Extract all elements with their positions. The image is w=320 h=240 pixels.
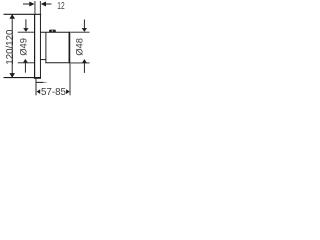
svg-text:57-85: 57-85 [41, 87, 66, 96]
knob front face (thick) [68, 32, 70, 63]
wire: bottom extension line (120 dim) [4, 77, 35, 79]
knob ring bottom edge (back part) [41, 59, 46, 61]
stub line below plate [36, 81, 43, 83]
wire: Ø48 bottom extension [70, 62, 89, 64]
knob bottom edge (front part) [45, 62, 70, 64]
arrow right (12 dim, left side) with tail [23, 3, 30, 5]
button on top of knob [49, 30, 56, 33]
wire: Ø49 top extension [18, 31, 35, 33]
background [0, 0, 96, 96]
button center slit [52, 30, 53, 31]
arrow down (120 bottom) [9, 73, 15, 78]
wire: 12-dim right extension (plate right) [39, 1, 41, 14]
plate left edge [34, 14, 36, 79]
wire: 12-dim left extension (plate left) [34, 1, 36, 14]
plate bottom edge (thick) [34, 77, 41, 79]
knob top edge [41, 31, 70, 33]
wire: top extension line + plate top edge [4, 13, 42, 15]
dim line Ø49 lower [24, 63, 26, 73]
dim line Ø49 upper [25, 19, 27, 28]
arrow up (Ø48 bottom edge) [82, 59, 87, 63]
dim line Ø48 upper [83, 20, 85, 29]
wire: Ø48 top extension [70, 31, 89, 33]
knob step vertical [45, 33, 47, 63]
wire: Ø49 bottom extension [18, 62, 35, 64]
arrow left (12 dim, right side) with tail [41, 2, 46, 7]
svg-text:12: 12 [57, 1, 64, 12]
arrow left (57-85) [37, 89, 41, 94]
arrow up (Ø49 bottom edge) [23, 59, 28, 63]
arrow right (57-85) [66, 89, 70, 94]
svg-text:Ø49: Ø49 [18, 38, 28, 56]
dim line 120/120 [11, 15, 13, 78]
dim line Ø48 lower [83, 63, 85, 73]
svg-text:120/120: 120/120 [5, 29, 16, 65]
wire: 57-85 left extension [35, 79, 37, 95]
svg-text:Ø48: Ø48 [74, 38, 84, 56]
arrow down (Ø48 top edge) [82, 28, 87, 32]
arrow down (Ø49 top edge) [23, 28, 28, 32]
arrow up (120 top) [9, 14, 15, 19]
wire: 57-85 right extension [69, 63, 71, 95]
plate right edge [39, 14, 41, 79]
